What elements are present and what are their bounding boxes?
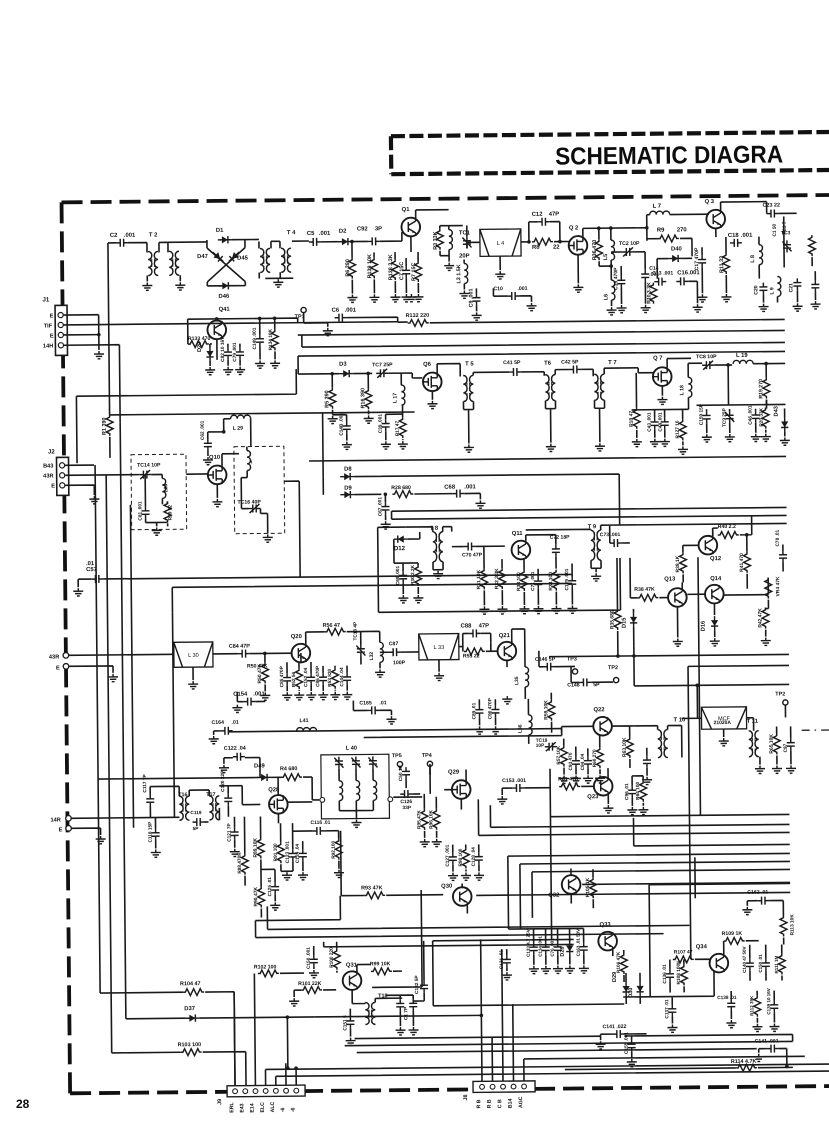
svg-text:E: E <box>51 483 55 489</box>
capacitor C149 <box>256 334 264 346</box>
capacitor C39 <box>382 419 390 431</box>
svg-text:C146 5P: C146 5P <box>535 657 556 663</box>
wire <box>234 968 829 1086</box>
svg-text:D8: D8 <box>344 467 352 473</box>
wire <box>380 651 419 653</box>
svg-text:TC18 4P: TC18 4P <box>353 622 359 641</box>
svg-text:D2: D2 <box>339 229 347 235</box>
trimmer TC1 <box>462 236 471 248</box>
ground <box>459 290 469 298</box>
trimmer TC3 <box>782 240 791 252</box>
wire Q1 collector <box>416 210 449 218</box>
ground <box>551 606 561 614</box>
wire <box>243 817 246 886</box>
wire Q14 emitter <box>713 603 715 615</box>
svg-text:Q10: Q10 <box>209 455 221 461</box>
svg-text:R39 1K: R39 1K <box>675 555 681 572</box>
svg-text:L41: L41 <box>300 718 309 724</box>
wire <box>571 563 573 604</box>
svg-text:Q1: Q1 <box>402 207 411 213</box>
wire <box>378 525 621 612</box>
wire R114 line <box>565 1067 793 1069</box>
wire <box>616 558 619 646</box>
svg-text:R50 47K: R50 47K <box>247 663 268 669</box>
wire <box>392 507 787 511</box>
svg-text:C163 .01 50V: C163 .01 50V <box>576 929 581 957</box>
wire upper 14R path <box>98 778 258 780</box>
wire <box>644 252 646 304</box>
wire <box>453 844 479 871</box>
resistor R42 <box>762 608 769 629</box>
svg-text:L3 1.5K: L3 1.5K <box>456 264 462 283</box>
wire <box>322 413 325 477</box>
capacitor C84 <box>238 650 250 658</box>
svg-text:C128 .04: C128 .04 <box>471 847 477 867</box>
transistor Q20 <box>291 644 310 663</box>
svg-text:D20: D20 <box>197 342 203 352</box>
wire <box>604 368 653 374</box>
wire to Q28 <box>242 785 260 804</box>
wire <box>207 432 209 456</box>
svg-text:C41 5P: C41 5P <box>503 360 521 366</box>
svg-text:L35: L35 <box>514 676 520 685</box>
wire <box>571 868 593 908</box>
capacitor C122 <box>233 753 245 761</box>
resistor R7 <box>415 261 422 282</box>
wire <box>493 288 531 302</box>
ground <box>638 807 648 815</box>
capacitor C20 <box>759 283 767 295</box>
wire <box>413 941 425 1001</box>
wire Q3 emitter <box>715 228 717 237</box>
svg-text:TP3: TP3 <box>567 656 577 662</box>
wire T4 to C5 <box>292 240 309 242</box>
svg-text:D37: D37 <box>184 1006 196 1012</box>
transistor Q1 <box>401 218 420 237</box>
capacitor C148 <box>579 678 591 686</box>
svg-text:R28 680: R28 680 <box>391 485 411 491</box>
ground <box>289 998 299 1006</box>
wire <box>594 400 604 442</box>
svg-text:C86 470P: C86 470P <box>315 666 321 687</box>
wire D37 right <box>287 1015 481 1068</box>
svg-text:C B: C B <box>497 1099 503 1108</box>
wire <box>601 1034 647 1040</box>
svg-text:R95 47K: R95 47K <box>416 810 422 829</box>
junction <box>97 333 101 337</box>
ground <box>725 434 735 442</box>
diode D47 <box>210 250 225 265</box>
svg-text:TC14 10P: TC14 10P <box>137 462 161 468</box>
junction <box>764 362 768 366</box>
wire <box>78 579 91 587</box>
capacitor C94 <box>584 756 592 768</box>
wire <box>750 944 782 980</box>
svg-text:R112 39K: R112 39K <box>749 995 754 1016</box>
ground <box>273 279 283 287</box>
ground <box>529 966 539 974</box>
wire right edge <box>759 236 798 302</box>
svg-text:C132 5P: C132 5P <box>414 975 420 994</box>
wire <box>304 313 328 323</box>
ground <box>212 499 222 507</box>
diode D40 <box>668 255 682 262</box>
resistor R32 <box>499 568 506 589</box>
ground <box>386 716 396 724</box>
wire Q2 source <box>577 254 579 283</box>
resistor R52 <box>296 668 303 689</box>
capacitor C150b <box>762 959 770 971</box>
svg-text:R7 15C: R7 15C <box>411 263 417 281</box>
svg-text:R41 470: R41 470 <box>739 553 745 572</box>
svg-text:C119: C119 <box>190 810 202 816</box>
wire <box>591 560 601 572</box>
ground <box>596 1041 606 1049</box>
wire <box>64 345 120 424</box>
wire <box>534 928 584 942</box>
resistor R112 <box>754 996 761 1017</box>
wire <box>466 906 468 914</box>
svg-text:C7 15C: C7 15C <box>399 262 405 280</box>
wire <box>475 288 477 311</box>
transistor Q10 <box>208 465 227 484</box>
ground <box>772 765 782 773</box>
diode D2 <box>338 238 352 245</box>
wire <box>610 228 613 306</box>
svg-text:E: E <box>50 333 54 339</box>
wire <box>634 654 789 685</box>
wire right edge vertical <box>783 216 785 267</box>
capacitor C127 <box>449 853 457 865</box>
ground <box>209 736 219 744</box>
resistor R99 <box>371 968 392 975</box>
svg-text:C92: C92 <box>357 226 369 232</box>
wire L7 <box>647 214 709 228</box>
ground <box>769 1024 779 1032</box>
capacitor C89 <box>475 705 483 717</box>
ground <box>472 312 482 320</box>
test point TP5 <box>397 762 402 767</box>
junction <box>384 492 388 496</box>
wire <box>581 369 593 376</box>
wire <box>106 475 112 1053</box>
wire <box>357 1049 757 1053</box>
trimmer TC10 <box>334 757 343 769</box>
resistor R9 <box>658 235 679 242</box>
capacitor C17 <box>698 255 706 267</box>
svg-text:R33 100: R33 100 <box>516 572 522 591</box>
capacitor C133 <box>530 943 538 955</box>
svg-text:R96 10K: R96 10K <box>428 809 434 828</box>
wire C12 loop <box>529 222 560 242</box>
svg-text:D47: D47 <box>197 254 209 260</box>
svg-text:R89 10K: R89 10K <box>253 838 259 858</box>
wire <box>386 995 413 1026</box>
svg-text:J8: J8 <box>463 1094 469 1100</box>
svg-text:R139 10K: R139 10K <box>367 254 373 278</box>
wire <box>188 318 298 344</box>
svg-text:R104 47: R104 47 <box>180 981 201 987</box>
ground <box>603 805 613 813</box>
svg-text:20P: 20P <box>459 253 470 259</box>
wire <box>179 275 181 281</box>
wire <box>399 767 401 770</box>
capacitor C97 <box>787 738 795 750</box>
svg-text:C136 .01: C136 .01 <box>662 964 668 984</box>
svg-text:C127 .001: C127 .001 <box>445 844 451 866</box>
resistor R92 <box>335 839 342 860</box>
resistor R63 <box>626 737 633 758</box>
capacitor C125 <box>271 882 279 894</box>
wire <box>767 201 797 213</box>
dashed box TC14 <box>131 454 187 530</box>
inductor L8 <box>759 245 763 265</box>
wire <box>260 869 262 917</box>
svg-text:Q33: Q33 <box>599 922 611 928</box>
wire <box>814 271 816 300</box>
wire <box>463 401 473 443</box>
capacitor C121 <box>231 828 239 840</box>
resistor R109 <box>724 937 745 944</box>
wire <box>208 419 251 447</box>
capacitor C50 <box>402 767 410 779</box>
capacitor C10 <box>507 292 519 300</box>
ground <box>433 571 443 579</box>
ground <box>89 496 99 504</box>
resistor R64 <box>640 781 647 802</box>
wire <box>499 256 501 270</box>
ground <box>328 416 338 424</box>
wire <box>108 242 116 244</box>
connector J2 <box>56 457 68 495</box>
svg-text:L 30: L 30 <box>188 653 199 659</box>
ground <box>527 303 537 311</box>
wire <box>213 653 238 655</box>
wire <box>555 592 557 605</box>
svg-text:R53 820: R53 820 <box>327 668 333 686</box>
wire Q31 emitter <box>351 990 353 1004</box>
wire <box>354 493 381 495</box>
ground <box>595 775 605 783</box>
wire <box>784 705 786 717</box>
wire <box>756 408 766 433</box>
ground <box>571 775 581 783</box>
ground <box>726 1020 736 1028</box>
resistor R88 <box>241 854 248 875</box>
capacitor C14 <box>641 270 649 282</box>
wire <box>255 917 663 938</box>
svg-text:C44 .001: C44 .001 <box>658 412 664 432</box>
junction <box>609 264 613 268</box>
capacitor C151 <box>346 1017 354 1029</box>
svg-text:C133 4.7 25V: C133 4.7 25V <box>526 929 531 957</box>
svg-text:270: 270 <box>677 227 688 233</box>
capacitor C44 <box>661 418 669 430</box>
svg-text:C9 .001: C9 .001 <box>468 288 474 307</box>
svg-text:R29 22: R29 22 <box>167 505 173 521</box>
capacitor C132 <box>420 981 428 993</box>
resistor R8 <box>532 238 553 245</box>
capacitor C70 <box>464 542 476 550</box>
wire <box>267 902 689 929</box>
wire <box>433 939 625 1006</box>
svg-text:C46 .001: C46 .001 <box>748 405 754 425</box>
resistor R100 <box>333 949 340 970</box>
svg-text:C159 15P: C159 15P <box>699 404 705 425</box>
ground <box>346 1038 356 1046</box>
svg-text:C131 .01: C131 .01 <box>499 950 505 970</box>
ground <box>381 521 391 529</box>
capacitor C120 <box>224 794 232 806</box>
resistor R31 <box>481 568 488 589</box>
svg-text:R10 3.3K: R10 3.3K <box>646 282 652 304</box>
wire <box>112 1052 246 1087</box>
wire <box>333 415 347 441</box>
svg-text:Q31: Q31 <box>346 963 358 969</box>
wire <box>150 786 156 848</box>
ground <box>323 328 333 336</box>
svg-text:C6: C6 <box>332 308 340 314</box>
wire <box>219 786 243 848</box>
transistor Q21 <box>497 642 516 661</box>
wire <box>683 528 713 545</box>
svg-text:Q21: Q21 <box>499 633 511 639</box>
trimmer TC9 <box>725 411 734 423</box>
inductor L18 <box>688 377 692 397</box>
wire Q28 source <box>278 802 312 823</box>
wire <box>484 546 503 605</box>
wire <box>449 225 463 227</box>
svg-text:L 19: L 19 <box>736 353 748 359</box>
filter L30 <box>174 642 213 667</box>
trimmer TC11 <box>351 757 360 769</box>
junction <box>366 372 370 376</box>
wire <box>274 869 276 901</box>
svg-text:C68: C68 <box>444 485 456 491</box>
wire <box>649 883 791 996</box>
svg-text:C85 470P: C85 470P <box>279 666 285 687</box>
svg-text:R64 100: R64 100 <box>635 782 641 800</box>
wire <box>331 374 333 415</box>
wire Q28 top <box>277 777 279 795</box>
svg-text:L32: L32 <box>369 652 375 661</box>
ground <box>347 295 357 303</box>
svg-text:Q 7: Q 7 <box>653 356 663 362</box>
resistor R108 <box>680 964 687 985</box>
wire <box>626 973 640 1004</box>
svg-text:C18: C18 <box>728 233 740 239</box>
svg-text:C42 5P: C42 5P <box>561 359 579 365</box>
wire <box>280 972 304 974</box>
wire <box>611 251 645 253</box>
svg-text:R138 3.3K: R138 3.3K <box>388 254 394 280</box>
trimmer TC19 <box>545 742 557 751</box>
svg-text:R65 10K: R65 10K <box>769 734 775 754</box>
svg-text:T17: T17 <box>206 792 215 798</box>
capacitor C62 <box>204 439 212 451</box>
wire <box>725 237 728 293</box>
resistor R101 <box>301 987 322 994</box>
svg-text:R92 100: R92 100 <box>331 840 337 858</box>
inductor L5 <box>611 240 615 260</box>
svg-text:R88 470K: R88 470K <box>237 852 243 874</box>
ground <box>351 820 361 828</box>
capacitor C159 <box>703 411 711 423</box>
capacitor C5 <box>309 238 321 246</box>
capacitor C153 <box>512 784 524 792</box>
wire <box>293 830 339 832</box>
svg-text:R9: R9 <box>657 228 665 234</box>
svg-text:C165: C165 <box>359 700 372 706</box>
capacitor C41 <box>509 368 521 376</box>
ground <box>461 872 471 880</box>
title box SCHEMATIC DIAGRAM <box>391 132 829 174</box>
capacitor C129 <box>568 576 576 588</box>
wire <box>207 240 245 286</box>
svg-text:D9: D9 <box>344 486 352 492</box>
junction <box>258 317 262 321</box>
svg-text:R109 1K: R109 1K <box>722 931 743 937</box>
resistor R91 <box>277 842 284 863</box>
svg-text:Q12: Q12 <box>710 556 722 562</box>
transistor Q31 <box>343 971 362 990</box>
diode D3 <box>339 370 353 377</box>
svg-text:T 2: T 2 <box>149 232 158 238</box>
junction <box>330 372 334 376</box>
junction <box>480 1014 484 1018</box>
ground <box>151 849 161 857</box>
svg-text:.001: .001 <box>741 233 753 239</box>
wire <box>405 779 407 788</box>
svg-text:L 40: L 40 <box>346 746 357 752</box>
capacitor C116 <box>313 827 325 835</box>
ground <box>408 1027 418 1035</box>
wire <box>765 364 767 409</box>
resistor R28 <box>392 491 413 498</box>
capacitor C73 <box>610 539 622 547</box>
junction <box>273 317 277 321</box>
svg-text:E43: E43 <box>239 1103 245 1112</box>
svg-text:L 9: L 9 <box>769 287 775 294</box>
ground <box>607 307 617 315</box>
test point TP3 <box>572 669 577 674</box>
svg-text:D16: D16 <box>701 621 707 631</box>
svg-text:TC9 25P: TC9 25P <box>722 408 728 427</box>
svg-text:TC8 10P: TC8 10P <box>696 354 717 360</box>
wire <box>109 399 785 414</box>
resistor R35 <box>614 609 621 630</box>
svg-text:C118 15P: C118 15P <box>147 822 153 843</box>
wire <box>696 685 698 718</box>
svg-text:R36 470: R36 470 <box>592 240 598 261</box>
svg-text:R32 3.3K: R32 3.3K <box>494 568 500 589</box>
wire <box>205 992 235 1086</box>
wire <box>264 653 266 691</box>
svg-text:B14: B14 <box>508 1098 514 1108</box>
svg-text:R59 10K: R59 10K <box>543 700 549 720</box>
resistor R59 <box>548 700 555 721</box>
wire <box>463 646 498 651</box>
inductor L6 <box>611 280 615 300</box>
ground <box>660 439 670 447</box>
wire Q2 drain <box>583 228 647 242</box>
connector J1 <box>55 305 67 355</box>
inductor L35 <box>525 667 529 687</box>
svg-text:28: 28 <box>16 1097 30 1111</box>
wire <box>239 344 241 366</box>
svg-text:R B: R B <box>476 1099 482 1108</box>
wire <box>571 666 613 682</box>
